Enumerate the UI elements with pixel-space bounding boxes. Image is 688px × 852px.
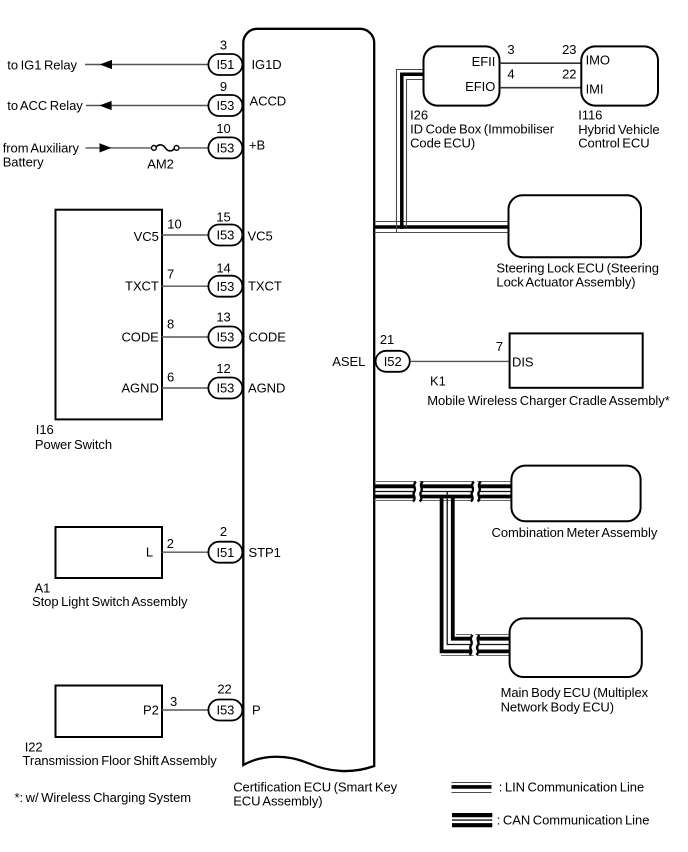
label: AM2 fuse name	[147, 157, 174, 172]
wire: I16 AGND pin 6 to connector I53 pin 12	[162, 387, 209, 389]
legend: CAN communication line symbol	[452, 815, 492, 825]
svg-text:I53: I53	[216, 381, 234, 396]
connector I53 pin 12 (AGND)	[208, 361, 242, 399]
svg-text:: CAN Communication Line: : CAN Communication Line	[497, 813, 650, 828]
hybrid vehicle control ECU I116 box	[581, 46, 658, 105]
svg-text:ACCD: ACCD	[250, 93, 287, 108]
svg-text:22: 22	[562, 66, 576, 81]
label: Steering Lock ECU (Steering Lock Actuator Assembly)	[496, 260, 659, 289]
footnote: w/ Wireless Charging System	[15, 790, 192, 805]
label: Main Body ECU (Multiplex Network Body ECU)	[501, 685, 649, 714]
svg-text:TXCT: TXCT	[248, 279, 282, 294]
steering lock ECU box	[509, 195, 642, 257]
svg-text:+B: +B	[249, 138, 265, 153]
svg-text:ID Code Box (Immobiliser: ID Code Box (Immobiliser	[410, 122, 555, 137]
wire break symbol on CAN line to Main Body ECU	[470, 635, 480, 655]
arrow: to ACC Relay (points left)	[99, 101, 111, 110]
LIN communication line: ECU to Steering Lock ECU (horizontal)	[374, 222, 508, 233]
svg-text:23: 23	[562, 42, 576, 57]
svg-text:VC5: VC5	[248, 229, 273, 244]
connector I53 pin 15 (VC5)	[208, 210, 242, 246]
svg-text:10: 10	[167, 217, 181, 232]
label: AGND in I16, pin 6	[121, 381, 158, 396]
label: I116 Hybrid Vehicle Control ECU	[578, 108, 659, 151]
svg-text:AGND: AGND	[121, 381, 158, 396]
legend: LIN communication line symbol	[452, 783, 492, 793]
svg-text:3: 3	[507, 42, 514, 57]
arrow: to IG1 Relay (points left)	[100, 60, 112, 69]
svg-text:21: 21	[380, 332, 394, 347]
power switch I16 box	[56, 210, 163, 420]
svg-text:to ACC Relay: to ACC Relay	[7, 98, 83, 113]
svg-text:CODE: CODE	[249, 330, 287, 345]
svg-text:Control ECU: Control ECU	[578, 136, 649, 151]
svg-text:I53: I53	[216, 279, 234, 294]
svg-text:L: L	[146, 545, 153, 560]
svg-text:P2: P2	[143, 703, 159, 718]
label: Certification ECU (Smart Key ECU Assembly)	[233, 780, 397, 809]
svg-text:P: P	[252, 703, 261, 718]
svg-text:Battery: Battery	[3, 154, 44, 169]
svg-text:AM2: AM2	[147, 157, 174, 172]
svg-text:7: 7	[167, 267, 174, 282]
pin label DIS, pin 7	[512, 354, 534, 369]
wire: I22 P2 pin 3 to connector I53 pin 22	[162, 709, 209, 711]
svg-text:3: 3	[170, 694, 177, 709]
svg-text:3: 3	[220, 38, 227, 53]
CAN communication line: ECU to Combination Meter (horizontal)	[374, 482, 511, 501]
svg-text:14: 14	[216, 261, 230, 276]
wire: EFII to IMO	[500, 62, 582, 64]
svg-text:15: 15	[216, 210, 230, 225]
svg-text:VC5: VC5	[134, 229, 159, 244]
svg-text:I51: I51	[216, 545, 234, 560]
svg-text:4: 4	[507, 66, 514, 81]
label: from Auxiliary Battery	[3, 140, 80, 169]
fuse AM2	[152, 145, 180, 151]
svg-text:10: 10	[216, 121, 230, 136]
svg-text:Lock Actuator Assembly): Lock Actuator Assembly)	[496, 274, 635, 289]
svg-text:TXCT: TXCT	[125, 279, 159, 294]
pin label ACCD	[250, 93, 287, 108]
connector I51 pin 2 (STP1)	[208, 524, 242, 563]
label: CODE in I16, pin 8	[121, 330, 159, 345]
svg-text:7: 7	[496, 339, 503, 354]
legend text: CAN Communication Line	[497, 813, 650, 828]
svg-text:ASEL: ASEL	[332, 354, 365, 369]
label: I22 Transmission Floor Shift Assembly	[23, 739, 218, 768]
svg-text:I26: I26	[410, 107, 428, 122]
connector I51 pin 3 (IG1D)	[208, 38, 242, 75]
svg-text:Transmission Floor Shift Assem: Transmission Floor Shift Assembly	[23, 753, 218, 768]
wire: fuse AM2 to pin +B	[179, 147, 208, 149]
label: K1 Mobile Wireless Charger Cradle Assembly	[427, 374, 670, 409]
wire: ASEL to DIS of K1	[410, 360, 510, 362]
label: to ACC Relay	[7, 98, 83, 113]
transmission floor shift I22 box	[56, 686, 163, 738]
wire: to ACC Relay from pin ACCD	[86, 105, 208, 107]
pin label VC5	[248, 229, 273, 244]
pin numbers 23 / 22 at I116	[562, 42, 576, 82]
pin label TXCT	[248, 279, 282, 294]
label: P2 in I22, pin 3	[143, 703, 159, 718]
connector I53 pin 10 (+B)	[208, 121, 242, 158]
wire: A1 L pin 2 to connector I51 pin 2	[162, 551, 209, 553]
svg-text:22: 22	[217, 681, 231, 696]
CAN communication line: branch down to Main Body ECU	[441, 492, 510, 656]
svg-text:I51: I51	[216, 57, 234, 72]
svg-text:8: 8	[167, 317, 174, 332]
connector I53 pin 9 (ACCD)	[208, 79, 242, 116]
svg-text:ECU Assembly): ECU Assembly)	[233, 793, 322, 808]
label: to IG1 Relay	[7, 57, 77, 72]
legend text: LIN Communication Line	[499, 780, 644, 795]
svg-text:IMO: IMO	[586, 53, 610, 68]
connector I53 pin 14 (TXCT)	[208, 261, 242, 297]
ID code box I26 (Immobiliser Code ECU)	[424, 46, 500, 105]
svg-text:Combination Meter Assembly: Combination Meter Assembly	[492, 525, 658, 540]
label: Combination Meter Assembly	[492, 525, 658, 540]
pin label CODE	[249, 330, 287, 345]
wire: EFIO to IMI	[500, 87, 582, 89]
pin label +B	[249, 138, 265, 153]
label: TXCT in I16, pin 7	[125, 279, 159, 294]
pin label AGND	[248, 381, 285, 396]
svg-text:I52: I52	[384, 354, 402, 369]
mobile wireless charger cradle K1 box	[510, 333, 643, 387]
label: A1 Stop Light Switch Assembly	[32, 580, 188, 609]
connector I53 pin 22 (P)	[208, 681, 242, 720]
svg-text:2: 2	[167, 536, 174, 551]
wire break symbol on CAN line (left of junction)	[413, 482, 423, 502]
connector I52 pin 21 (ASEL) on right edge	[376, 332, 410, 372]
svg-text:AGND: AGND	[248, 381, 285, 396]
svg-text:I116: I116	[578, 108, 602, 123]
svg-text:I53: I53	[216, 98, 234, 113]
connector I53 pin 13 (CODE)	[208, 310, 242, 348]
svg-text:12: 12	[216, 361, 230, 376]
label: I26 ID Code Box (Immobiliser Code ECU)	[410, 107, 555, 150]
svg-text:I53: I53	[216, 141, 234, 156]
svg-text:I53: I53	[216, 330, 234, 345]
svg-text:Steering Lock ECU (Steering: Steering Lock ECU (Steering	[496, 260, 659, 275]
wire: I16 TXCT pin 7 to connector I53 pin 14	[162, 285, 209, 287]
pin labels IMO / IMI in I116	[586, 53, 610, 97]
svg-text:IG1D: IG1D	[252, 57, 282, 72]
svg-text:*: w/ Wireless Charging System: *: w/ Wireless Charging System	[15, 790, 192, 805]
pin label IG1D	[252, 57, 282, 72]
svg-text:IMI: IMI	[586, 82, 604, 97]
svg-text:EFII: EFII	[472, 54, 496, 69]
svg-text:2: 2	[220, 524, 227, 539]
svg-text:9: 9	[220, 79, 227, 94]
svg-text:EFIO: EFIO	[465, 79, 495, 94]
svg-text:to IG1 Relay: to IG1 Relay	[7, 57, 77, 72]
svg-text:Certification ECU (Smart Key: Certification ECU (Smart Key	[233, 780, 397, 795]
svg-text:Mobile Wireless Charger Cradle: Mobile Wireless Charger Cradle Assembly*	[427, 393, 670, 408]
svg-text:I53: I53	[216, 703, 234, 718]
stop light switch A1 box	[56, 527, 163, 578]
wire break symbol on CAN line (right of junction)	[471, 482, 481, 502]
label: I16 Power Switch	[35, 422, 112, 452]
wire: to IG1 Relay from pin IG1D	[85, 64, 208, 66]
svg-text:Power Switch: Power Switch	[35, 437, 112, 452]
pin numbers 3 / 4 at I26	[507, 42, 514, 82]
svg-text:Network Body ECU): Network Body ECU)	[501, 699, 614, 714]
main body ECU box	[510, 618, 642, 677]
svg-text:STP1: STP1	[249, 545, 281, 560]
svg-text:Code ECU): Code ECU)	[410, 136, 475, 151]
svg-text:I53: I53	[216, 228, 234, 243]
svg-text:Stop Light Switch Assembly: Stop Light Switch Assembly	[32, 594, 188, 609]
wire: I16 VC5 pin 10 to connector I53 pin 15	[162, 234, 209, 236]
svg-text:DIS: DIS	[512, 354, 534, 369]
pin label STP1	[249, 545, 281, 560]
pin labels EFII / EFIO in I26	[465, 54, 495, 94]
label: L in A1, pin 2	[146, 545, 153, 560]
svg-text:I16: I16	[36, 422, 54, 437]
svg-text:from Auxiliary: from Auxiliary	[3, 140, 80, 155]
wire: I16 CODE pin 8 to connector I53 pin 13	[162, 336, 209, 338]
LIN communication line: branch up to ID Code Box I26	[397, 70, 424, 233]
label: VC5 in I16, pin 10	[134, 229, 159, 244]
svg-text:: LIN Communication Line: : LIN Communication Line	[499, 780, 644, 795]
pin label ASEL	[332, 354, 365, 369]
pin label P	[252, 703, 261, 718]
ECU U1: Certification ECU (Smart Key ECU Assembly) body	[243, 29, 374, 771]
wire: from Auxiliary Battery to fuse AM2	[86, 147, 152, 149]
svg-text:K1: K1	[430, 374, 446, 389]
combination meter assembly box	[511, 466, 640, 522]
svg-text:13: 13	[216, 310, 230, 325]
svg-text:Main Body ECU (Multiplex: Main Body ECU (Multiplex	[501, 685, 649, 700]
svg-text:CODE: CODE	[121, 330, 159, 345]
arrow: from Auxiliary Battery (points right)	[100, 143, 112, 152]
svg-text:6: 6	[167, 370, 174, 385]
